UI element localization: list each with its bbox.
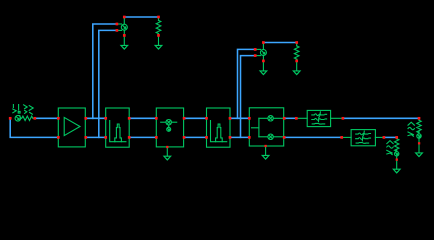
resistor zigzag RL1 [417,120,421,133]
controlled source V3 (top right) [255,43,266,61]
mixer U2 with local oscillator [156,108,183,147]
bandpass filter FL2 [207,108,231,147]
ground under R1 [155,37,162,49]
wire FL3 out to load RL1 [343,117,419,119]
source V1 with internal resistance (left input) [15,116,34,122]
wire V2 top to resistor R1 [124,16,158,18]
pin cues amp U1 [57,117,87,139]
resistor zigzag RL2 [395,139,399,152]
ground under V3 [260,63,267,75]
wire FL4 out to load RL2 [384,136,396,138]
pin cues IQ demod U3 [248,117,286,147]
controlled source V2 (top left) [117,17,127,35]
bandpass filter FL1 [106,108,130,147]
load RL1 with probe (far right) [417,118,421,143]
ground under RL2 [393,161,400,173]
wire return loop from V1 minus around to amp lower pin [10,119,56,137]
load RL2 with probe [395,137,399,159]
pin cues resistor R2 [295,41,298,62]
ground under mixer U2 [164,147,171,160]
pin cues filter FL1 [104,117,130,139]
resistor R1 (top) [156,17,161,35]
wire IQ out Q to LPF FL4 [284,136,341,138]
resistor R2 [294,43,299,61]
pin cues LPF FL4 [340,136,385,139]
wire IQ out I to LPF FL3 [284,117,296,119]
wire FL1 to mixer U2 row2 [130,136,156,138]
pin cues mixer U2 [155,117,186,148]
wire amp out to filter FL1 row1 [86,117,105,119]
pin cues filter FL2 [205,117,231,139]
wire vertical v2 to source V2 lower control pin [99,30,117,137]
ground under IQ demod [262,146,269,159]
pin cues source V3 [254,41,265,62]
wire amp lower to filter FL1 row2 [86,136,105,138]
wire FL2 to IQ demod row2 [231,136,249,138]
wire FL2 to IQ demod row1 [231,117,249,119]
label glyphs RL2 [387,141,393,155]
wire mixer U2 to filter FL2 row2 [184,136,206,138]
label glyphs RL1 [408,122,414,136]
wire net1 source V1 to amp input [35,117,58,119]
IQ demodulator U3 [249,108,283,146]
pin cues source V2 [116,16,126,37]
label glyphs above source V1 [13,105,33,116]
pin cues resistor R1 [157,16,160,37]
pin cue V1 right [33,117,36,120]
wire mixer U2 to filter FL2 row1 [184,117,206,119]
ground under RL1 [416,145,423,157]
wire FL1 to mixer U2 row1 [130,117,156,119]
wire V3 top to resistor R2 [263,42,296,44]
low pass filter FL4 [342,130,384,146]
pin cues load RL2 [395,136,398,161]
wire vertical vB to source V3 lower pin [241,56,255,138]
ground under R2 [293,63,300,75]
wire vertical v1 to source V2 upper control pin [93,24,117,118]
amplifier U1 [58,108,85,147]
wire vertical vA to source V3 upper pin [238,49,255,118]
pin cues LPF FL3 [295,117,344,120]
ground under V2 [121,37,128,49]
pin cue V1 left [9,117,12,120]
low pass filter FL3 [296,110,343,126]
pin cues load RL1 [418,117,421,145]
